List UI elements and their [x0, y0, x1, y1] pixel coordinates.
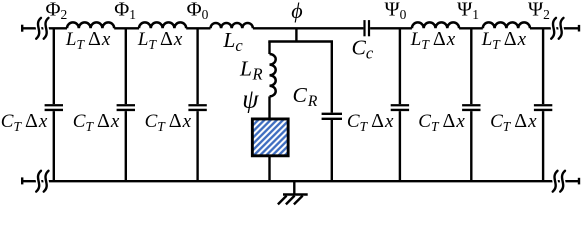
wire top rail from Lc to Cc — [253, 27, 364, 29]
wire top rail between LT2 and Lc — [186, 27, 210, 29]
svg-text:Φ2: Φ2 — [46, 0, 68, 22]
capacitor CT4 branch at Psi0 — [391, 28, 409, 181]
svg-text:Φ1: Φ1 — [114, 0, 136, 22]
capacitor CT3 branch at Phi0 — [188, 28, 206, 181]
end tick bottom-left — [21, 177, 23, 184]
capacitor Cc right plate — [368, 20, 370, 36]
svg-text:ψ: ψ — [242, 85, 259, 114]
svg-text:ϕ: ϕ — [291, 0, 302, 23]
wire bottom rail — [22, 180, 579, 182]
svg-text:Φ0: Φ0 — [187, 0, 209, 22]
svg-text:Ψ2: Ψ2 — [528, 0, 550, 22]
wire phi stem — [295, 28, 297, 41]
inductor LT2 (coil between Phi1 and Phi0) — [139, 22, 186, 28]
svg-text:CTΔx: CTΔx — [347, 110, 394, 134]
svg-text:LTΔx: LTΔx — [137, 28, 183, 52]
capacitor CR branch — [322, 42, 342, 182]
capacitor CT5 branch at Psi1 — [462, 28, 480, 181]
wire below junction box — [268, 157, 270, 181]
capacitor CT2 branch at Phi1 — [117, 28, 135, 181]
inductor LT1 (coil between Phi2 and Phi1) — [67, 22, 114, 28]
svg-text:LTΔx: LTΔx — [65, 28, 111, 52]
svg-text:Lc: Lc — [222, 28, 243, 55]
break top-left — [36, 18, 48, 39]
svg-text:CTΔx: CTΔx — [73, 110, 120, 134]
wire top rail between LT1 and LT2 — [114, 27, 139, 29]
junction box (hatched) — [252, 119, 288, 156]
ground — [278, 181, 308, 204]
svg-text:CTΔx: CTΔx — [145, 110, 192, 134]
wire break marks (white casing + S curves) — [36, 18, 565, 192]
capacitor Cc left plate — [363, 20, 365, 36]
svg-text:LTΔx: LTΔx — [481, 28, 527, 52]
svg-text:CTΔx: CTΔx — [1, 110, 48, 134]
svg-text:CR: CR — [293, 83, 318, 110]
inductor LR (vertical coil) — [270, 54, 276, 96]
end tick bottom-right — [578, 178, 580, 185]
wire top rail from Cc to LT3 — [370, 27, 412, 29]
break bottom-left — [36, 171, 48, 192]
inductor Lc (coupling coil) — [211, 23, 253, 28]
svg-text:CTΔx: CTΔx — [490, 110, 537, 134]
inductor LT4 (coil between Psi1 and Psi2) — [483, 22, 530, 28]
wire top rail between LT3 and LT4 — [459, 27, 483, 29]
break bottom-right — [553, 171, 565, 192]
wire psi node segment — [268, 96, 270, 117]
capacitor CT1 branch at Phi2 — [45, 28, 63, 181]
svg-text:Ψ1: Ψ1 — [457, 0, 479, 22]
break top-right — [551, 18, 563, 39]
svg-text:LR: LR — [239, 57, 263, 84]
wire top rail left segment — [22, 27, 67, 29]
inductor LT3 (coil between Psi0 and Psi1) — [412, 22, 459, 28]
end tick top-right — [578, 25, 580, 32]
capacitor CT6 branch at Psi2 — [534, 28, 552, 181]
wire top rail right segment — [530, 27, 579, 29]
svg-text:CTΔx: CTΔx — [418, 110, 465, 134]
wire left branch upper — [268, 42, 270, 55]
svg-text:Cc: Cc — [352, 35, 374, 62]
wire resonator top bar — [268, 40, 333, 42]
svg-text:Ψ0: Ψ0 — [385, 0, 407, 22]
end tick top-left — [21, 25, 23, 32]
svg-text:LTΔx: LTΔx — [410, 28, 456, 52]
